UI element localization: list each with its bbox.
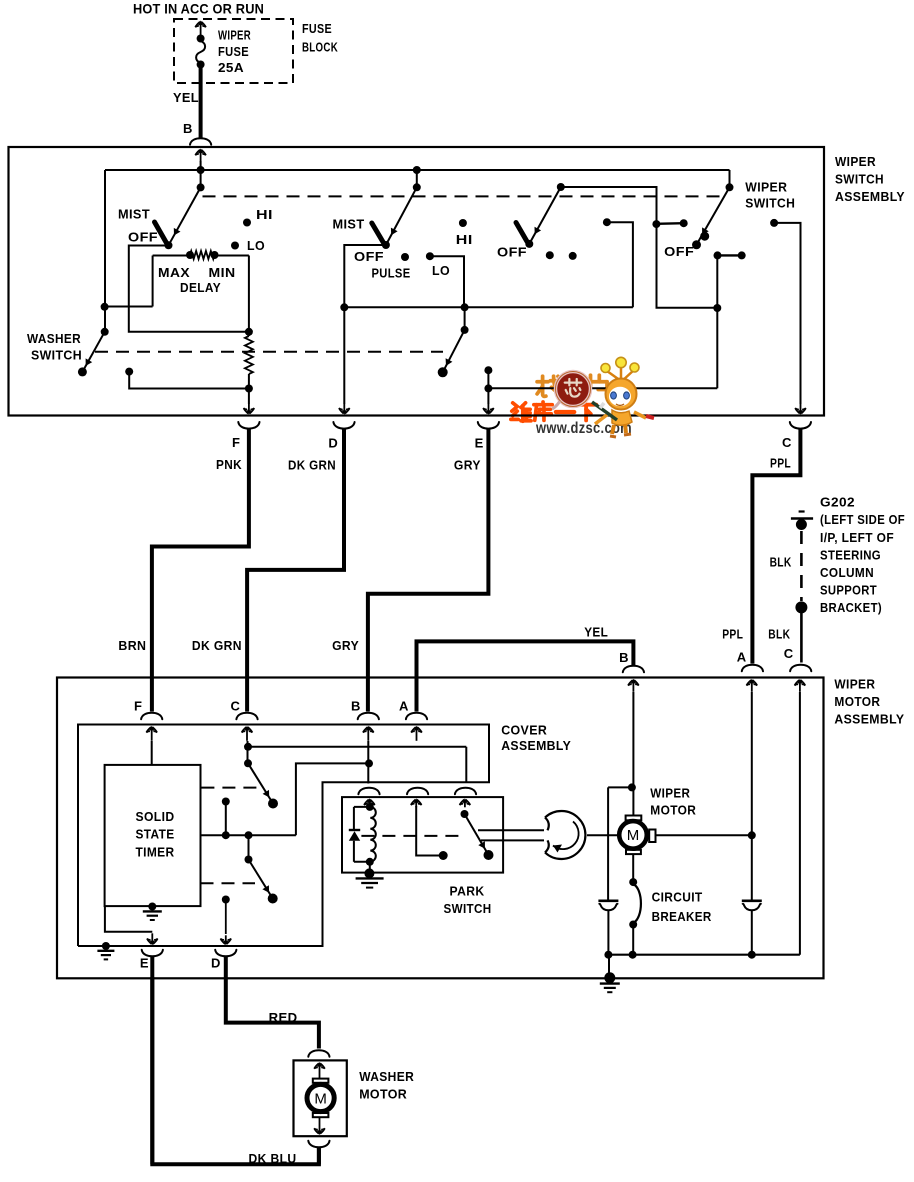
svg-text:ASSEMBLY: ASSEMBLY: [834, 712, 904, 727]
svg-text:MOTOR: MOTOR: [834, 694, 880, 709]
svg-text:PARK: PARK: [450, 884, 485, 899]
svg-text:MAX: MAX: [158, 265, 190, 280]
svg-text:GRY: GRY: [332, 638, 359, 653]
svg-text:MIST: MIST: [333, 217, 365, 232]
svg-text:GRY: GRY: [454, 458, 481, 473]
svg-text:WASHER: WASHER: [27, 331, 81, 346]
svg-text:PNK: PNK: [216, 457, 242, 472]
svg-text:F: F: [232, 435, 240, 450]
svg-text:M: M: [627, 827, 640, 844]
svg-text:DELAY: DELAY: [180, 280, 221, 295]
svg-text:OFF: OFF: [354, 249, 384, 264]
svg-text:COVER: COVER: [501, 723, 547, 738]
svg-text:G202: G202: [820, 495, 855, 510]
svg-text:BRACKET): BRACKET): [820, 600, 882, 615]
svg-text:SWITCH: SWITCH: [745, 196, 795, 211]
svg-text:YEL: YEL: [173, 90, 199, 105]
svg-text:RED: RED: [269, 1010, 298, 1025]
svg-text:CIRCUIT: CIRCUIT: [652, 890, 703, 905]
svg-text:B: B: [183, 121, 193, 136]
svg-text:C: C: [782, 435, 792, 450]
svg-text:WIPER: WIPER: [745, 180, 787, 195]
svg-text:(LEFT SIDE OF: (LEFT SIDE OF: [820, 512, 905, 527]
svg-text:MOTOR: MOTOR: [650, 803, 696, 818]
svg-text:D: D: [328, 436, 338, 451]
svg-text:B: B: [351, 699, 361, 714]
svg-text:DK GRN: DK GRN: [192, 638, 242, 653]
svg-text:BRN: BRN: [118, 638, 146, 653]
svg-text:PPL: PPL: [722, 627, 743, 642]
svg-text:SWITCH: SWITCH: [31, 348, 82, 363]
svg-text:FUSE: FUSE: [218, 44, 249, 59]
svg-text:OFF: OFF: [664, 244, 694, 259]
svg-text:FUSE: FUSE: [302, 21, 332, 36]
svg-text:HI: HI: [456, 232, 473, 247]
svg-text:SWITCH: SWITCH: [835, 172, 884, 187]
svg-text:OFF: OFF: [128, 230, 158, 245]
svg-text:WASHER: WASHER: [359, 1069, 414, 1084]
svg-text:HI: HI: [256, 207, 273, 222]
svg-text:WIPER: WIPER: [835, 154, 876, 169]
svg-text:C: C: [784, 646, 794, 661]
svg-text:F: F: [134, 699, 142, 714]
svg-text:ASSEMBLY: ASSEMBLY: [835, 189, 905, 204]
svg-text:I/P, LEFT OF: I/P, LEFT OF: [820, 530, 894, 545]
svg-text:PULSE: PULSE: [372, 266, 411, 281]
svg-text:STATE: STATE: [136, 827, 175, 842]
svg-text:STEERING: STEERING: [820, 547, 881, 562]
svg-text:SOLID: SOLID: [136, 809, 175, 824]
svg-text:SWITCH: SWITCH: [444, 901, 492, 916]
svg-text:WIPER: WIPER: [834, 677, 875, 692]
svg-text:TIMER: TIMER: [136, 844, 175, 859]
svg-text:BLK: BLK: [768, 627, 790, 642]
svg-text:25A: 25A: [218, 60, 244, 75]
svg-text:DK GRN: DK GRN: [288, 458, 336, 473]
svg-text:DK BLU: DK BLU: [249, 1151, 297, 1166]
svg-text:COLUMN: COLUMN: [820, 565, 874, 580]
svg-text:SUPPORT: SUPPORT: [820, 583, 877, 598]
svg-text:A: A: [399, 699, 409, 714]
svg-text:LO: LO: [247, 238, 265, 253]
svg-text:M: M: [314, 1091, 327, 1108]
svg-text:BREAKER: BREAKER: [652, 909, 712, 924]
svg-text:C: C: [231, 699, 241, 714]
svg-text:D: D: [211, 956, 221, 971]
svg-text:E: E: [475, 436, 484, 451]
svg-text:HOT IN ACC OR RUN: HOT IN ACC OR RUN: [133, 1, 264, 17]
svg-text:WIPER: WIPER: [218, 28, 251, 43]
svg-text:B: B: [619, 650, 629, 665]
svg-text:E: E: [140, 956, 149, 971]
svg-text:MIN: MIN: [209, 265, 236, 280]
svg-text:WIPER: WIPER: [650, 786, 690, 801]
svg-text:PPL: PPL: [770, 456, 791, 471]
svg-text:YEL: YEL: [584, 625, 608, 640]
svg-text:BLOCK: BLOCK: [302, 40, 338, 55]
svg-text:ASSEMBLY: ASSEMBLY: [501, 738, 571, 753]
svg-text:MOTOR: MOTOR: [359, 1087, 407, 1102]
svg-text:OFF: OFF: [497, 245, 527, 260]
svg-text:A: A: [737, 650, 747, 665]
svg-text:MIST: MIST: [118, 207, 150, 222]
svg-text:BLK: BLK: [770, 555, 792, 570]
svg-text:LO: LO: [432, 263, 450, 278]
